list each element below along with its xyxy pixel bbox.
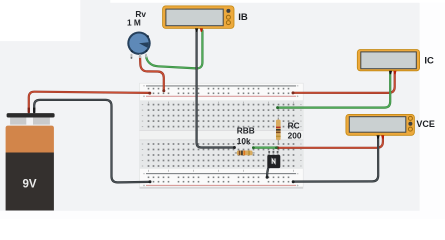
wire: VCE meter black to bottom rail [293,137,378,182]
multimeter IB [163,6,234,32]
wire: green jumper on breadboard [253,147,276,149]
potentiometer legs [131,54,133,58]
svg-text:9V: 9V [22,179,36,191]
node: red wire in rail hole [148,92,151,95]
battery terminal posts [10,117,26,125]
battery top cap [7,113,55,117]
battery body orange [6,126,54,153]
wire: potentiometer green to IB meter [146,31,202,69]
node: VCE black in bottom rail [292,180,295,183]
transistor Q1 legs [268,152,278,156]
breadboard holes [148,88,295,183]
node: IB black wire end [233,146,236,149]
svg-text:RC: RC [288,120,300,130]
battery 9V [6,108,55,211]
resistor RC lead [277,118,279,144]
wire: breadboard red to VCE meter [278,137,383,148]
resistor RBB bands [239,151,241,156]
transistor Q1 body [267,155,280,168]
wire: transistor emitter black to bottom rail [267,167,269,177]
resistor RC body [276,120,281,141]
multimeter IC [357,50,419,75]
wire: potentiometer red to top rail [140,56,164,91]
svg-text:IC: IC [424,55,434,66]
node: rail red wire exit [292,91,295,94]
node: green jumper ends [252,146,255,149]
svg-text:10k: 10k [237,136,251,146]
breadboard row letters [142,85,302,186]
breadboard [140,83,304,189]
VCE terminals [377,135,380,138]
resistor RBB leads [235,152,255,154]
battery body black [6,153,54,211]
breadboard minus line top [146,85,296,87]
wire: IC meter green to breadboard [278,73,391,108]
wire: top rail red to IC meter [293,73,395,93]
node: IC green wire end [276,106,279,109]
svg-text:RBB: RBB [237,126,255,136]
multimeter VCE [346,114,415,138]
breadboard plus line bottom [146,184,296,186]
IC terminals [389,71,392,74]
wire: IB meter black to breadboard [197,31,235,148]
breadboard minus line bottom [146,173,296,175]
svg-text:IB: IB [238,12,248,23]
node: battery black in bottom rail [149,180,152,183]
node: pot red wire in rail hole [162,89,165,92]
transistor Q1 label N [271,158,276,164]
wire: battery red to top rail [29,31,395,183]
node: emitter wire in bottom rail [266,176,269,179]
svg-text:1 M: 1 M [127,18,141,28]
resistor RC bands [276,127,281,129]
IB terminals [195,28,198,32]
battery wire tips [28,108,30,114]
resistor RBB body [237,151,253,156]
svg-text:200: 200 [288,130,302,140]
potentiometer Rv [127,32,150,59]
svg-text:VCE: VCE [416,119,435,129]
breadboard plus line top [146,95,296,97]
wire: battery black to bottom rail [34,100,149,182]
node: VCE red wire start [276,146,279,149]
